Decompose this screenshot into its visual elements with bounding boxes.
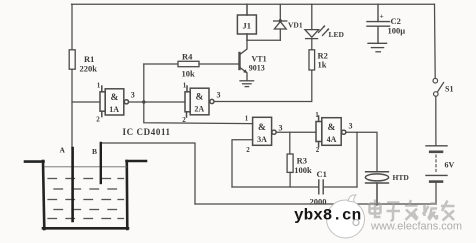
- svg-text:R3: R3: [297, 156, 307, 166]
- svg-text:R4: R4: [182, 52, 193, 62]
- wire bottom rail: [195, 203, 436, 205]
- NAND gate U3A: [253, 117, 277, 145]
- svg-text:1: 1: [245, 115, 249, 123]
- wire 2A output to R2 bottom: [214, 70, 312, 102]
- label gate 4A pins and name: [315, 111, 352, 154]
- label VT1 9013: [249, 55, 267, 73]
- wire 1A output to 2A input: [129, 101, 185, 103]
- wire electrode B to bottom rail: [101, 143, 195, 204]
- resistor R2: [309, 50, 315, 70]
- svg-text:2: 2: [316, 146, 320, 154]
- svg-text:100k: 100k: [294, 165, 312, 175]
- svg-text:3: 3: [279, 124, 283, 133]
- junction node HTD bottom: [375, 202, 378, 205]
- label gate 3A pins and name: [245, 115, 283, 155]
- svg-text:C2: C2: [391, 16, 401, 26]
- resistor R3: [287, 154, 293, 172]
- switch S1: [433, 78, 444, 96]
- wire S1 to battery: [435, 96, 437, 146]
- NAND gate U2A: [185, 86, 214, 117]
- wire junction up to R4: [143, 64, 145, 102]
- electrode B: [100, 143, 102, 183]
- label R3 100k: [294, 156, 312, 176]
- svg-text:A: A: [60, 146, 66, 155]
- label R1 220k: [80, 54, 98, 74]
- wire C1 right node up to 4A output: [356, 132, 358, 187]
- wire C1 right lead: [323, 186, 357, 188]
- svg-text:LED: LED: [329, 30, 345, 39]
- watermark white bubble: [327, 195, 365, 238]
- label C2 100u: [388, 16, 406, 36]
- wire J1 bottom to VD1 bottom: [247, 39, 280, 41]
- svg-text:3: 3: [349, 122, 353, 131]
- wire battery minus to bottom rail: [435, 182, 437, 204]
- label gate 2A pins and name: [182, 82, 220, 125]
- svg-text:1A: 1A: [109, 105, 119, 114]
- svg-text:1: 1: [97, 82, 101, 90]
- label gate 1A pins and name: [96, 82, 135, 124]
- svg-text:3: 3: [217, 91, 221, 100]
- water dashes: [48, 179, 124, 219]
- battery GB 6V: [426, 146, 447, 182]
- wire 1A output junction down to 3A pin 1: [144, 102, 253, 124]
- svg-text:HTD: HTD: [393, 173, 410, 182]
- svg-text:ybx8.cn: ybx8.cn: [294, 207, 361, 225]
- resistor R1: [69, 50, 75, 69]
- svg-text:IC CD4011: IC CD4011: [123, 127, 171, 137]
- svg-text:10k: 10k: [182, 69, 196, 79]
- svg-text:2: 2: [96, 116, 100, 124]
- svg-text:220k: 220k: [80, 64, 98, 74]
- svg-text:+: +: [380, 12, 384, 21]
- LED light arrows: [319, 25, 329, 35]
- wire oscillator bottom left: [232, 186, 319, 188]
- capacitor C2: [367, 4, 390, 43]
- svg-text:www.elecfans.com: www.elecfans.com: [370, 221, 462, 233]
- NAND gate U4A: [316, 116, 346, 147]
- wire 4A output to HTD: [346, 132, 377, 171]
- svg-text:B: B: [92, 147, 97, 156]
- wire 3A output to 4A input: [276, 131, 316, 133]
- water surface line: [45, 166, 127, 168]
- svg-text:3: 3: [131, 91, 135, 100]
- transistor VT1: [240, 40, 248, 80]
- wire left vertical (V+ to R1 to gate 1A input to electrode A): [71, 4, 73, 148]
- svg-text:2: 2: [246, 146, 250, 154]
- water tank: [25, 161, 146, 229]
- svg-text:4A: 4A: [327, 135, 337, 144]
- svg-text:3A: 3A: [257, 135, 267, 144]
- relay J1: [237, 4, 256, 40]
- svg-text:VD1: VD1: [288, 21, 303, 30]
- wire gate1A input: [72, 101, 100, 103]
- svg-text:R1: R1: [84, 54, 94, 64]
- svg-text:6V: 6V: [445, 161, 455, 170]
- svg-text:9013: 9013: [249, 64, 265, 73]
- svg-text:C1: C1: [317, 169, 327, 179]
- diode VD1: [274, 4, 287, 40]
- wire R4 left lead: [144, 63, 178, 65]
- capacitor C1: [319, 180, 323, 194]
- svg-text:1: 1: [315, 111, 319, 119]
- svg-text:J1: J1: [243, 21, 252, 31]
- wire top rail: [72, 3, 435, 5]
- svg-text:2A: 2A: [194, 105, 204, 114]
- wire right vertical top: [434, 4, 437, 78]
- label C1 2000: [310, 169, 327, 207]
- junction node at 1A output: [142, 100, 145, 103]
- wire R3 top branch: [289, 132, 291, 154]
- resistor R4: [178, 61, 199, 66]
- svg-text:&: &: [328, 123, 336, 133]
- ground under C2: [368, 43, 387, 52]
- NAND gate U1A: [100, 86, 129, 117]
- svg-text:2000: 2000: [310, 197, 327, 207]
- label R2 1k: [318, 51, 328, 70]
- watermark grey CJK logotype: [370, 200, 455, 221]
- wire R3 bottom: [289, 172, 291, 187]
- svg-text:S1: S1: [445, 85, 453, 94]
- label R4 10k: [182, 52, 196, 79]
- buzzer HTD: [365, 172, 388, 204]
- wire R2 top to LED cathode: [311, 39, 313, 50]
- svg-text:VT1: VT1: [252, 55, 267, 64]
- svg-text:&: &: [258, 123, 266, 133]
- svg-text:&: &: [110, 93, 118, 103]
- svg-text:1: 1: [183, 82, 187, 90]
- svg-text:&: &: [196, 92, 204, 102]
- wire 3A pin2 feedback loop: [232, 140, 253, 187]
- ground under VT1 emitter: [240, 81, 254, 87]
- electrode A: [71, 148, 74, 221]
- LED D1: [305, 4, 319, 38]
- svg-text:100µ: 100µ: [388, 26, 406, 36]
- svg-text:1k: 1k: [318, 60, 327, 70]
- wire R4 right lead to VT1 base: [199, 63, 239, 65]
